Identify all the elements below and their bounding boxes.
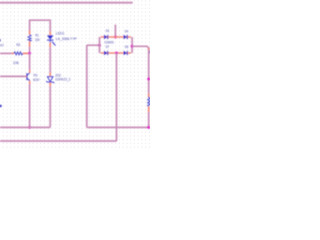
- wire TR3 emitter down to ground rail: [29, 84, 31, 127]
- diode D8: [124, 51, 128, 55]
- diode D4: [124, 35, 128, 39]
- wire bottom rail 2: [0, 140, 116, 142]
- svg-text:DZ0KZ2_2: DZ0KZ2_2: [55, 77, 70, 82]
- junction dot emitter at rail: [28, 126, 31, 129]
- wire TR3 base net from left edge: [0, 75, 25, 77]
- svg-text:LED1: LED1: [56, 31, 65, 36]
- wire bridge left column: [99, 37, 101, 53]
- junction dot bridge bottom row: [115, 52, 118, 55]
- junction dot right edge at rail: [147, 126, 150, 129]
- wire bridge left tap: [87, 45, 100, 46]
- resistor R1: [28, 30, 31, 46]
- wire staple between R1 and LED1 branches: [30, 20, 51, 31]
- resistor R3: [12, 52, 29, 55]
- svg-text:BC547: BC547: [33, 77, 40, 82]
- svg-text:D1N4001: D1N4001: [105, 40, 114, 44]
- junction dot right edge net: [147, 78, 150, 81]
- label fragment at left edge (cut) line 1: [0, 39, 1, 41]
- svg-text:D3: D3: [106, 29, 110, 33]
- svg-text:R3: R3: [16, 42, 20, 47]
- junction dot bridge left column: [98, 44, 101, 47]
- svg-text:D8: D8: [125, 45, 129, 49]
- wire AC top vertical into bridge: [114, 25, 116, 37]
- junction dot bridge right column: [131, 45, 134, 48]
- svg-text:447: 447: [0, 42, 4, 47]
- svg-text:D4: D4: [125, 30, 129, 34]
- wire bridge right tap to right edge: [132, 46, 150, 50]
- svg-text:100: 100: [35, 37, 40, 42]
- wire LED1 cathode down to zener: [49, 47, 51, 72]
- wire bottom rail left segment: [0, 126, 50, 128]
- wire zener down and corner into bottom rail: [49, 86, 50, 127]
- junction dot bridge top row: [114, 36, 117, 39]
- wire R3 net from left edge: [0, 52, 12, 54]
- svg-text:D7: D7: [106, 45, 110, 49]
- svg-text:LA_3366-TYP: LA_3366-TYP: [56, 36, 77, 41]
- resistor R4 (right edge, cut off): [148, 94, 151, 113]
- wire bridge bottom row (pins): [101, 52, 131, 54]
- wire right edge vertical lower: [148, 112, 150, 127]
- svg-text:10k: 10k: [13, 60, 19, 65]
- diode D7: [104, 51, 108, 55]
- diode D3: [104, 35, 108, 39]
- wire right edge vertical: [148, 50, 150, 94]
- transistor TR3: [25, 70, 30, 84]
- LED LED1: [47, 31, 56, 47]
- wire left tap vertical down: [86, 46, 88, 128]
- label fragment block at left edge (cut): [0, 105, 2, 107]
- junction A dot (R3 to collector branch): [28, 52, 31, 55]
- wire R1 bottom to junction A: [29, 47, 31, 54]
- wire DC minus vertical from bridge bottom: [116, 53, 117, 141]
- wire top rail: [0, 2, 132, 4]
- pin stub at right edge component: [148, 48, 150, 51]
- wire bottom rail right segment: [87, 126, 150, 128]
- glyph tick at right edge component: [149, 51, 151, 52]
- zener diode ZD2: [46, 72, 54, 86]
- wire junction A down to TR3 collector: [29, 53, 31, 70]
- wire bridge top row (pins): [101, 36, 131, 38]
- wire bridge right column: [131, 37, 133, 53]
